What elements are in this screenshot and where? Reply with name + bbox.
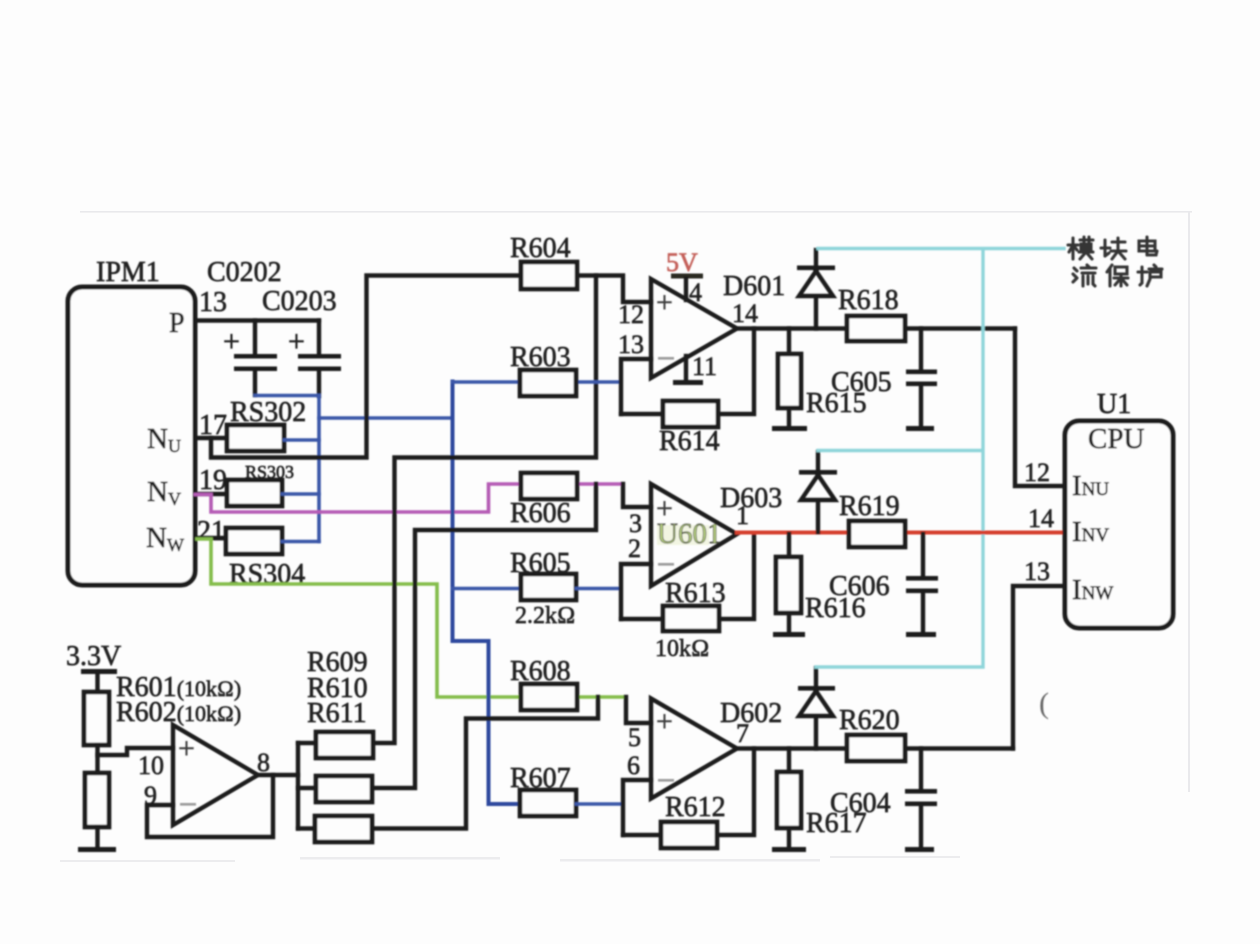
- resistor R608: [521, 684, 577, 710]
- wire red over cyan crossing: [972, 531, 996, 535]
- svg-text:D603: D603: [720, 483, 782, 514]
- svg-text:13: 13: [1024, 557, 1050, 586]
- wire blue bus vertical: [317, 396, 321, 542]
- power bar 3.3V: [81, 669, 117, 674]
- svg-text:+: +: [656, 286, 673, 319]
- wire pin 21 to RS304: [195, 536, 226, 540]
- resistor RS302: [227, 425, 284, 451]
- wire blue R605 right: [576, 587, 621, 591]
- wire INU branch: [1015, 329, 1065, 487]
- wire navy bus vertical: [453, 382, 521, 805]
- wire R604 right with junction riser: [577, 276, 651, 303]
- svg-text:R611: R611: [307, 698, 367, 729]
- resistor R607: [520, 790, 576, 816]
- ground bar C606: [906, 632, 936, 637]
- capacitor C605: [906, 329, 937, 428]
- wire D603 minus input: [621, 564, 651, 619]
- diode D603net: [799, 452, 837, 532]
- svg-text:D602: D602: [720, 698, 782, 729]
- char hu: [1138, 265, 1162, 286]
- faint smudge lines bottom: [60, 856, 960, 862]
- wire purple NV net: [195, 484, 521, 512]
- wire blue R603 line: [453, 380, 622, 384]
- svg-text:C606: C606: [829, 571, 890, 602]
- wire bias to op-amp plus: [98, 748, 174, 755]
- svg-text:10: 10: [138, 751, 164, 780]
- wire stub R610: [298, 786, 316, 790]
- wire bias bus vertical: [296, 743, 300, 829]
- svg-text:+: +: [656, 705, 673, 738]
- resistor R614: [663, 401, 718, 427]
- svg-text:C0203: C0203: [262, 286, 337, 317]
- wire purple R606 right: [577, 482, 623, 486]
- wire 3.3V stem: [95, 674, 99, 692]
- wire cyan protection net: [816, 249, 1064, 668]
- minus sign D602: [658, 779, 674, 782]
- wire junction D603 plus-node bias drop: [372, 484, 596, 788]
- svg-text:U601: U601: [657, 518, 721, 550]
- wire junction D602 plus-node bias drop: [372, 697, 598, 829]
- svg-text:7: 7: [736, 719, 749, 748]
- svg-text:C605: C605: [831, 367, 892, 398]
- capacitor C604: [905, 749, 937, 849]
- diode D601net: [797, 250, 835, 329]
- svg-text:13: 13: [618, 330, 644, 359]
- svg-text:12: 12: [1024, 458, 1050, 487]
- svg-text:+: +: [178, 732, 195, 765]
- resistor RS304: [226, 528, 282, 554]
- wire D602 output: [737, 746, 1013, 750]
- wire junction D601 plus-node bias drop: [372, 276, 596, 744]
- svg-text:RS303: RS303: [245, 462, 294, 482]
- svg-text:12: 12: [618, 300, 644, 329]
- wire pin17 branch down-right-up to R604: [211, 276, 521, 458]
- svg-text:13: 13: [199, 287, 227, 318]
- svg-text:4: 4: [689, 278, 702, 307]
- label U601: [657, 518, 721, 550]
- svg-text:10kΩ: 10kΩ: [655, 636, 709, 662]
- resistor R617: [777, 749, 801, 849]
- wire D601 output: [737, 326, 1015, 330]
- svg-text:6: 6: [627, 751, 640, 780]
- resistor R610: [316, 776, 372, 802]
- wire pin4 stem: [684, 279, 688, 301]
- svg-text:R614: R614: [659, 426, 720, 457]
- wire bias output: [258, 773, 298, 777]
- char mo: [1068, 237, 1093, 259]
- wire R602 to ground: [95, 827, 99, 848]
- svg-text:2.2kΩ: 2.2kΩ: [515, 603, 575, 629]
- wire stub R611: [298, 826, 316, 830]
- resistor R619: [849, 521, 905, 547]
- wire INW branch: [1013, 586, 1065, 749]
- resistor R604: [521, 262, 577, 289]
- resistor R609: [316, 732, 373, 758]
- pin 11 bar: [673, 380, 703, 385]
- svg-text:U1: U1: [1097, 389, 1131, 420]
- char liu: [1073, 265, 1096, 286]
- svg-text:5: 5: [628, 723, 641, 752]
- resistor RS303: [227, 480, 282, 506]
- svg-text:R606: R606: [510, 498, 571, 529]
- wire blue cap bottoms join: [255, 394, 319, 398]
- wire pin 17 to RS302: [195, 436, 227, 440]
- svg-text:8: 8: [257, 748, 270, 777]
- wire D603 plus input step: [623, 484, 651, 507]
- pin 11 stem D601: [684, 356, 688, 381]
- ground bar R615: [772, 426, 807, 431]
- wire R601-R602 junction: [95, 745, 99, 773]
- wire blue RS303 right: [282, 492, 319, 496]
- wire blue RS302 right: [284, 438, 319, 442]
- minus sign bias op-amp: [180, 803, 196, 806]
- resistor R620: [847, 735, 905, 761]
- wire green R608 right: [577, 695, 626, 699]
- resistor R613: [663, 606, 719, 631]
- svg-text:19: 19: [199, 465, 227, 496]
- wire pin P: [195, 318, 319, 322]
- capacitor C0202: [223, 325, 277, 371]
- resistor R605: [521, 574, 576, 600]
- svg-text:R607: R607: [510, 763, 571, 794]
- capacitor C0203: [288, 325, 341, 371]
- wire R613 feedback: [621, 534, 754, 619]
- op-amp D602: [651, 699, 737, 799]
- resistor R611: [315, 816, 372, 842]
- svg-text:5V: 5V: [666, 248, 698, 277]
- resistor R612: [661, 822, 717, 848]
- wire blue RS304 right: [282, 540, 319, 544]
- svg-text:P: P: [169, 308, 185, 339]
- char dian: [1139, 237, 1157, 255]
- svg-text:14: 14: [732, 299, 758, 328]
- svg-text:R605: R605: [510, 548, 571, 579]
- svg-text:+: +: [288, 325, 305, 358]
- svg-text:R608: R608: [510, 656, 571, 687]
- minus sign D601: [658, 357, 674, 360]
- svg-text:R603: R603: [510, 342, 571, 373]
- capacitor C606: [906, 534, 938, 633]
- resistor R618: [847, 316, 905, 341]
- wire blue R607 right: [576, 802, 623, 806]
- svg-text:R602(10kΩ): R602(10kΩ): [116, 697, 241, 728]
- resistor R603: [520, 370, 576, 396]
- svg-text:C604: C604: [830, 788, 891, 819]
- svg-text:CPU: CPU: [1088, 423, 1144, 455]
- char bao: [1107, 265, 1128, 286]
- svg-text:IPM1: IPM1: [96, 257, 160, 288]
- IPM1 block: [68, 287, 195, 585]
- resistor R606: [521, 473, 577, 499]
- svg-text:3.3V: 3.3V: [66, 641, 121, 672]
- svg-text:R604: R604: [510, 233, 571, 264]
- wire blue bus horizontal to R603 riser: [319, 416, 453, 420]
- resistor R601: [84, 692, 109, 745]
- wire green NW net: [197, 539, 521, 697]
- wire D602 plus input step: [626, 697, 651, 723]
- svg-text:2: 2: [628, 534, 641, 563]
- ground bar R616: [773, 632, 805, 637]
- wire stub R609: [298, 741, 316, 745]
- svg-text:R618: R618: [838, 285, 899, 316]
- svg-text:1: 1: [736, 501, 749, 530]
- wire D601 minus input: [621, 359, 651, 414]
- svg-text:R620: R620: [839, 705, 900, 736]
- minus sign D603: [658, 563, 674, 566]
- wire C0203 stem: [317, 321, 321, 397]
- resistor R602: [85, 773, 109, 827]
- ground bar C604: [905, 847, 934, 852]
- wire red INV output: [737, 531, 1065, 535]
- svg-text:D601: D601: [723, 271, 785, 302]
- wire C0202 stem: [253, 321, 257, 396]
- faint page frame artifact top: [80, 211, 1192, 213]
- op-amp bias buffer: [173, 725, 258, 825]
- text module current protection (hand-drawn CJK): [1068, 237, 1162, 286]
- power bar pin 4 D601: [671, 274, 703, 279]
- wire pin 19 to RS303: [195, 492, 227, 496]
- wire D602 minus input: [623, 780, 651, 835]
- diode D602net: [798, 668, 835, 749]
- ground bar R617: [772, 847, 806, 852]
- ground bar R602: [78, 847, 116, 852]
- wire R614 feedback: [621, 329, 754, 415]
- wire R612 feedback: [623, 749, 754, 836]
- wire bias op-amp feedback: [147, 775, 273, 837]
- op-amp D603: [651, 484, 737, 586]
- svg-text:11: 11: [692, 352, 717, 381]
- ground bar C605: [906, 426, 934, 431]
- svg-text:RS302: RS302: [230, 397, 306, 428]
- svg-text:(: (: [1039, 687, 1049, 720]
- wire blue R605 feed: [453, 587, 522, 591]
- svg-text:14: 14: [1028, 504, 1054, 533]
- resistor R615: [778, 329, 801, 428]
- char kuai: [1101, 238, 1126, 259]
- svg-text:R619: R619: [839, 491, 900, 522]
- svg-text:+: +: [223, 325, 240, 358]
- op-amp D601: [651, 279, 737, 378]
- CPU U1 block: [1065, 421, 1173, 628]
- svg-text:C0202: C0202: [207, 257, 282, 288]
- svg-text:R613: R613: [665, 578, 726, 609]
- svg-text:R612: R612: [665, 792, 726, 823]
- resistor R616: [776, 534, 801, 633]
- faint page frame artifact right: [1188, 212, 1190, 792]
